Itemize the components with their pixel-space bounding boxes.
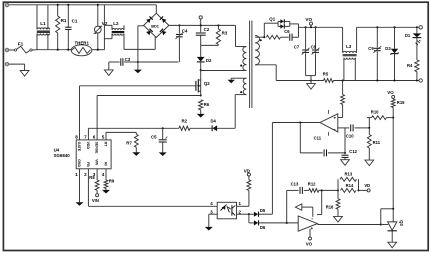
svg-text:+: +	[333, 116, 336, 121]
svg-text:F1: F1	[18, 42, 24, 47]
svg-text:Q2: Q2	[204, 81, 210, 86]
svg-text:+: +	[310, 226, 313, 231]
svg-text:D1: D1	[405, 33, 411, 38]
svg-text:3: 3	[210, 209, 213, 214]
svg-text:VD: VD	[364, 183, 370, 188]
svg-text:VIN: VIN	[92, 198, 99, 203]
svg-text:-: -	[311, 216, 313, 222]
svg-text:R13: R13	[345, 172, 353, 177]
svg-text:R4: R4	[407, 63, 413, 68]
svg-text:VD: VD	[244, 169, 250, 174]
svg-text:5: 5	[102, 134, 105, 139]
svg-text:C6: C6	[284, 29, 290, 34]
svg-text:R1: R1	[61, 18, 67, 23]
svg-text:7: 7	[84, 134, 87, 139]
svg-text:C10: C10	[346, 133, 354, 138]
svg-text:R9: R9	[109, 178, 115, 183]
svg-text:C3: C3	[125, 57, 131, 62]
svg-text:Q1: Q1	[269, 16, 275, 21]
svg-text:C5: C5	[151, 134, 157, 139]
svg-text:1: 1	[75, 172, 78, 177]
svg-text:R11: R11	[373, 140, 381, 145]
svg-text:R6: R6	[204, 102, 210, 107]
svg-text:D2: D2	[206, 58, 212, 63]
svg-text:RT: RT	[103, 142, 107, 148]
svg-text:BD1: BD1	[151, 23, 160, 28]
svg-text:R10: R10	[371, 109, 379, 114]
svg-text:4: 4	[102, 172, 105, 177]
svg-text:-: -	[334, 126, 336, 132]
svg-text:RI: RI	[103, 162, 107, 166]
svg-text:VO: VO	[387, 90, 394, 95]
svg-text:C11: C11	[314, 136, 322, 141]
svg-text:R5: R5	[323, 72, 329, 77]
svg-text:R14: R14	[346, 183, 354, 188]
svg-text:L2: L2	[113, 21, 119, 26]
svg-text:C13: C13	[291, 181, 299, 186]
svg-text:L1: L1	[40, 21, 46, 26]
svg-text:R16: R16	[326, 205, 334, 210]
svg-text:D4: D4	[211, 118, 217, 123]
svg-text:VDD: VDD	[86, 142, 90, 150]
svg-text:2: 2	[239, 209, 242, 214]
svg-text:FB: FB	[86, 162, 90, 167]
svg-text:SG6840: SG6840	[54, 153, 71, 158]
svg-text:VIN: VIN	[95, 159, 99, 165]
svg-text:R12: R12	[308, 181, 316, 186]
svg-text:C12: C12	[349, 149, 357, 154]
svg-text:4: 4	[210, 201, 213, 206]
svg-text:C7: C7	[294, 44, 300, 49]
svg-text:R2: R2	[182, 119, 188, 124]
svg-text:2: 2	[84, 172, 87, 177]
svg-text:GND: GND	[77, 159, 81, 167]
svg-text:D3: D3	[385, 46, 391, 51]
svg-text:L3: L3	[346, 44, 352, 49]
svg-text:C2: C2	[204, 27, 210, 32]
svg-text:6: 6	[93, 134, 96, 139]
svg-text:8: 8	[75, 134, 78, 139]
svg-text:R8: R8	[89, 175, 95, 180]
svg-text:C9: C9	[368, 46, 374, 51]
svg-text:R7: R7	[126, 140, 132, 145]
svg-text:R15: R15	[397, 100, 405, 105]
svg-text:D6: D6	[260, 225, 266, 230]
svg-text:C4: C4	[182, 29, 188, 34]
svg-text:SENSE: SENSE	[95, 142, 99, 155]
svg-text:VO: VO	[306, 241, 313, 246]
svg-text:THER1: THER1	[75, 41, 90, 46]
svg-text:D5: D5	[260, 208, 266, 213]
svg-text:U4: U4	[54, 147, 60, 152]
svg-text:C1: C1	[72, 18, 78, 23]
svg-text:1: 1	[239, 201, 242, 206]
svg-text:C8: C8	[311, 44, 317, 49]
svg-text:Q3: Q3	[399, 220, 404, 226]
svg-text:VO: VO	[305, 17, 312, 22]
svg-text:R3: R3	[222, 31, 228, 36]
svg-text:GATE: GATE	[77, 142, 81, 152]
